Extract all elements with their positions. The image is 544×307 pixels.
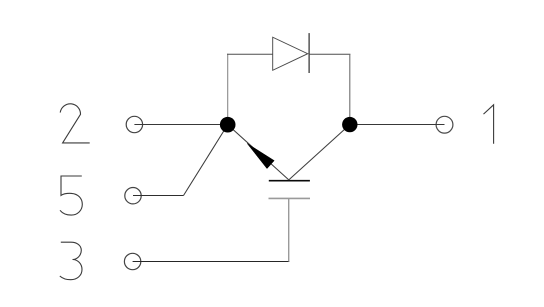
wire diode anode side horizontal <box>227 53 273 55</box>
wire left riser to diode branch <box>227 54 229 125</box>
pin label 2 <box>60 104 89 143</box>
diode D1 triangle <box>273 37 308 70</box>
terminal circle pin 3 <box>124 253 140 269</box>
terminal circle pin 1 <box>436 116 453 133</box>
wire gate riser vertical <box>288 198 290 261</box>
terminal circle pin 5 <box>125 188 141 204</box>
wire diode cathode side horizontal <box>309 53 350 55</box>
IGBT gate bar <box>269 197 311 199</box>
IGBT left diagonal with emitter arrow <box>228 125 289 180</box>
junction node right (emitter) <box>342 117 357 132</box>
IGBT collector bar <box>269 180 310 182</box>
wire pin 2 to collector node <box>134 124 228 126</box>
diode D1 cathode bar <box>308 33 310 73</box>
pin label 3 <box>60 242 82 280</box>
pin label 1 <box>484 105 494 144</box>
pin label 5 <box>60 176 82 215</box>
IGBT right diagonal <box>289 125 350 180</box>
wire pin 5 horizontal segment <box>133 195 184 197</box>
wire emitter node to pin 1 <box>350 124 445 126</box>
wire pin 5 diagonal segment to collector node <box>184 125 228 196</box>
wire right riser from diode branch <box>349 54 351 124</box>
junction node left (collector) <box>220 117 236 133</box>
terminal circle pin 2 <box>126 116 142 132</box>
wire pin 3 horizontal to gate riser <box>133 261 290 263</box>
